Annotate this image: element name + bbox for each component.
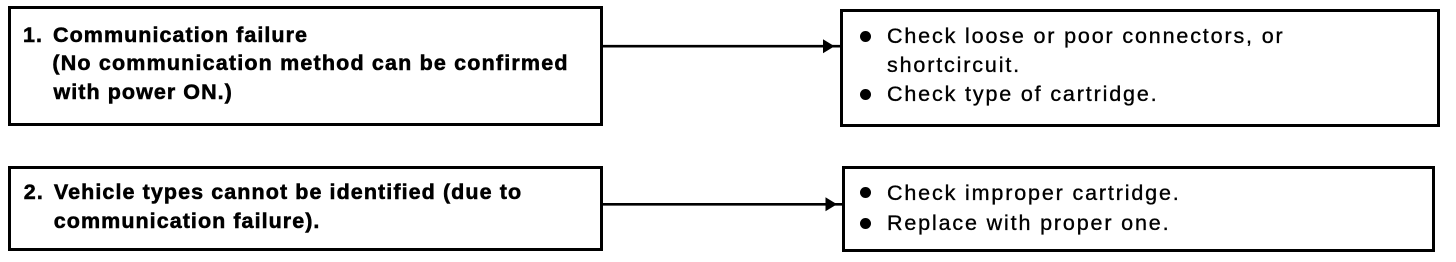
text: symptom 2 line 2 (54, 209, 321, 233)
box: remedy 1 (840, 9, 1440, 127)
text: remedy 2 line 2 (887, 211, 1170, 235)
bullet: remedy 1 item 1 (860, 31, 871, 42)
text: remedy 1 line 3 (887, 82, 1158, 106)
text: remedy 1 line 2 (887, 53, 1021, 77)
bullet: remedy 2 item 1 (860, 187, 871, 198)
text: remedy 1 line 1 (887, 24, 1285, 48)
text: symptom 1 line 3 (54, 80, 233, 104)
text: symptom 1 line 2 (52, 51, 568, 75)
text: symptom 1 line 1 (23, 23, 308, 47)
bullet: remedy 2 item 2 (860, 218, 871, 229)
box: symptom 2 (8, 166, 603, 251)
bullet: remedy 1 item 2 (860, 89, 871, 100)
text: remedy 2 line 1 (887, 181, 1181, 205)
box: symptom 1 (8, 6, 603, 126)
box: remedy 2 (842, 166, 1435, 252)
text: symptom 2 line 1 (24, 180, 522, 204)
